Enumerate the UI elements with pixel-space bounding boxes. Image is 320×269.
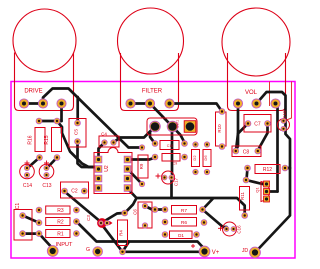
svg-text:D6: D6 [203,155,208,161]
svg-text:INPUT: INPUT [56,242,73,248]
svg-text:C5: C5 [74,129,80,135]
svg-text:C10: C10 [167,144,173,148]
svg-text:R15: R15 [44,135,50,144]
svg-text:R10: R10 [217,124,222,133]
svg-text:DRIVE: DRIVE [24,89,42,95]
svg-text:C8: C8 [243,150,250,156]
svg-text:C4: C4 [101,132,107,137]
svg-text:C6: C6 [133,209,138,215]
svg-text:D2: D2 [192,155,197,161]
svg-text:SW1: SW1 [176,120,180,128]
svg-text:R12: R12 [263,167,272,173]
svg-text:VOL: VOL [245,90,258,96]
svg-text:C13: C13 [42,183,51,189]
svg-text:R4: R4 [119,230,124,236]
svg-text:C2: C2 [71,189,78,195]
svg-text:Q1: Q1 [255,187,260,193]
svg-text:U2: U2 [104,165,110,172]
svg-text:C7: C7 [254,122,261,128]
svg-text:C1: C1 [15,203,21,210]
svg-text:C9: C9 [173,162,178,166]
svg-text:FILTER: FILTER [142,89,163,95]
svg-text:JD: JD [242,248,249,254]
svg-text:C14: C14 [23,183,32,189]
svg-text:R1: R1 [57,232,64,238]
svg-text:R3: R3 [57,208,64,214]
svg-text:R9: R9 [139,163,144,169]
svg-text:V+: V+ [212,250,220,256]
svg-text:R6: R6 [181,220,187,226]
svg-text:R7: R7 [181,208,187,214]
svg-text:R2: R2 [57,220,64,226]
svg-text:C17: C17 [174,177,179,186]
svg-text:C3: C3 [86,215,91,221]
svg-text:R16: R16 [28,135,34,144]
svg-text:C16: C16 [237,225,242,234]
svg-text:C15: C15 [282,110,287,119]
svg-text:G: G [86,247,90,253]
svg-text:R11: R11 [240,192,245,200]
svg-text:D1: D1 [178,233,184,238]
